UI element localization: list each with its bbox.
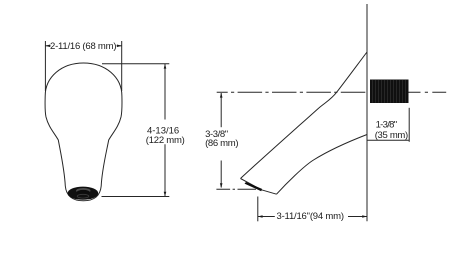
svg-text:1-3/8": 1-3/8" (376, 119, 398, 130)
svg-text:(122 mm): (122 mm) (146, 135, 185, 146)
svg-text:(86 mm): (86 mm) (205, 138, 238, 149)
svg-text:3-11/16"(94 mm): 3-11/16"(94 mm) (277, 211, 345, 222)
svg-text:2-11/16 (68 mm): 2-11/16 (68 mm) (50, 41, 117, 52)
svg-text:(35 mm): (35 mm) (375, 130, 409, 141)
